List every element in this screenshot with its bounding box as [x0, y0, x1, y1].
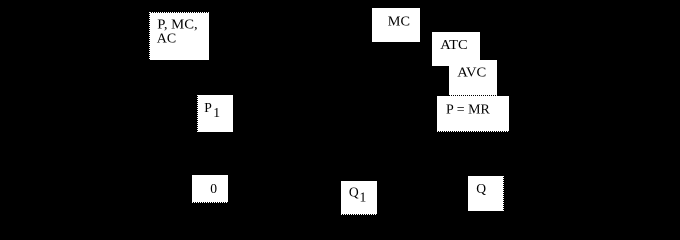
svg-text:1: 1	[213, 105, 220, 120]
svg-text:AC: AC	[157, 31, 176, 46]
svg-text:0: 0	[210, 181, 217, 196]
svg-text:AVC: AVC	[457, 65, 486, 80]
svg-text:P, MC,: P, MC,	[157, 17, 197, 32]
svg-text:Q: Q	[476, 181, 486, 196]
svg-text:1: 1	[360, 190, 367, 205]
svg-text:Q: Q	[349, 185, 359, 200]
svg-text:MC: MC	[388, 14, 410, 29]
svg-text:P = MR: P = MR	[446, 101, 491, 116]
svg-text:P: P	[204, 100, 212, 115]
svg-text:ATC: ATC	[440, 37, 467, 52]
